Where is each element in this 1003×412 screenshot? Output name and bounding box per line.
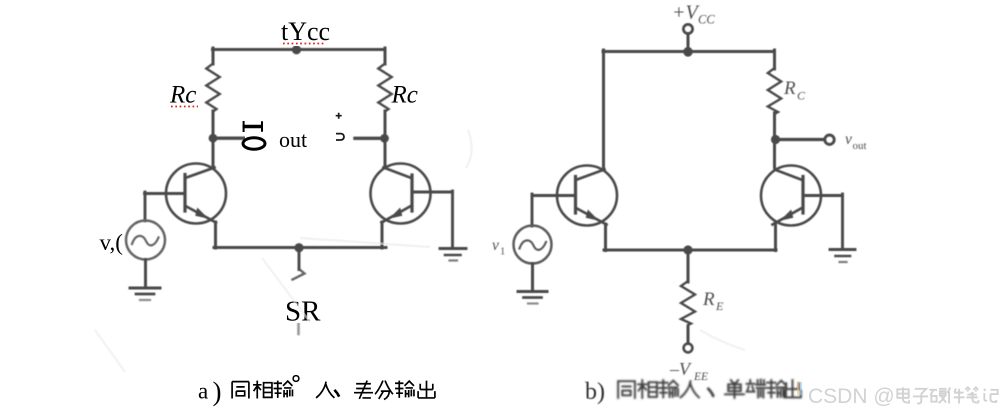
terminal vout circle <box>825 135 834 144</box>
resistor Rc left (circuit a) <box>206 64 219 112</box>
wire Q3 emitter down <box>604 224 607 251</box>
resistor Rc right (circuit a) <box>378 64 391 112</box>
transistor Q1 base bar <box>183 175 186 212</box>
source V1 circle (circuit a) <box>126 221 165 260</box>
label rotated u (overlaid vo) <box>336 134 344 140</box>
wire emitter bottom rail (circuit a) <box>214 246 386 249</box>
svg-text:v: v <box>845 131 852 148</box>
resistor RE <box>681 281 695 325</box>
transistor Q4 emitter arrow <box>780 210 793 221</box>
wire right branch top (rail to resistor, circuit a) <box>384 48 387 64</box>
wire source V1 to ground <box>144 260 147 289</box>
transistor Q3 collector line <box>577 170 605 180</box>
transistor Q4 circle <box>761 166 821 226</box>
transistor Q1 collector line <box>187 168 215 178</box>
resistor RC (circuit b) <box>768 68 781 114</box>
caption a: CJK 同相输入、差分输出 (crisp) <box>232 381 435 400</box>
transistor Q1 circle <box>166 164 226 224</box>
faint scan smudges <box>95 130 745 372</box>
svg-text:CC: CC <box>698 13 715 27</box>
label +Vcc (circuit b) <box>672 2 715 27</box>
svg-text:b): b) <box>585 379 605 405</box>
ground (Q2 base, circuit a) <box>440 247 466 250</box>
wire output node to terminal <box>776 138 825 141</box>
caption a: degree mark <box>293 376 299 382</box>
white patch behind SR <box>280 283 324 323</box>
transistor Q1 emitter arrow <box>195 208 208 219</box>
current source fragment tick below SR <box>297 324 300 335</box>
caption b: CJK 同相输入、单端输出 (blurry) <box>618 380 801 398</box>
transistor Q4 collector line <box>775 170 802 180</box>
svg-text:+V: +V <box>672 2 700 24</box>
transistor Q4 base lead <box>803 194 843 197</box>
node collector right (out+) <box>380 134 389 143</box>
node tail junction (circuit b) <box>683 245 692 254</box>
node output (circuit b) <box>771 135 780 144</box>
svg-text:1: 1 <box>500 247 505 258</box>
svg-text:out: out <box>279 127 307 152</box>
label -VEE <box>669 359 708 383</box>
node Vcc junction dot (circuit a) <box>292 45 301 54</box>
transistor Q2 emitter arrow <box>389 208 402 219</box>
svg-text:Rc: Rc <box>391 82 418 109</box>
wire RE to VEE terminal <box>687 327 690 344</box>
svg-text:tYcc: tYcc <box>281 17 330 46</box>
wire Q4 emitter down <box>774 224 777 251</box>
transistor Q2 base lead <box>412 191 453 194</box>
white patch behind tYcc <box>276 14 332 46</box>
svg-text:v,(: v,( <box>100 230 123 255</box>
terminal +Vcc circle <box>683 24 692 33</box>
transistor Q3 base bar <box>574 177 577 214</box>
wire Q1 emitter down <box>214 222 217 248</box>
white patch behind rotated 10 <box>245 115 270 155</box>
wire Q3 base corner down to source <box>531 194 534 226</box>
wire out stub right <box>355 137 385 140</box>
spellcheck underline under Rc <box>171 106 198 108</box>
transistor Q3 emitter line <box>577 209 607 225</box>
svg-text:Rc: Rc <box>169 82 196 109</box>
wire Vcc top rail (circuit a) <box>213 48 386 51</box>
spellcheck underline under tYcc <box>283 43 324 45</box>
transistor Q4 emitter line <box>773 209 802 225</box>
node collector left (out-) <box>209 134 218 143</box>
wire Vcc terminal to rail <box>687 34 690 53</box>
svg-text:): ) <box>213 377 222 407</box>
wire out stub left <box>213 136 251 139</box>
wire Vcc top rail (circuit b) <box>603 50 775 53</box>
transistor Q1 base lead <box>145 192 186 195</box>
terminal -VEE circle <box>684 344 693 353</box>
svg-text:CSDN @: CSDN @ <box>808 385 895 408</box>
transistor Q4 base bar <box>801 177 804 214</box>
ground (Q4 base, circuit b) <box>830 248 855 251</box>
svg-text:R: R <box>783 78 796 99</box>
transistor Q1 emitter line <box>187 207 217 223</box>
wire left branch top (rail to resistor) <box>212 48 215 64</box>
svg-text:C: C <box>797 89 806 103</box>
current source fragment (faded zigzag above SR) <box>293 269 305 280</box>
transistor Q3 emitter arrow <box>586 210 599 221</box>
label v1 (circuit b) <box>492 237 505 258</box>
svg-text:a: a <box>198 379 208 404</box>
source V1 sine wave <box>132 236 159 245</box>
svg-text:R: R <box>702 289 715 310</box>
transistor Q2 circle <box>371 164 431 224</box>
svg-text:v: v <box>492 237 499 254</box>
svg-text:EE: EE <box>693 371 708 383</box>
source V1 sine wave (circuit b) <box>520 240 547 249</box>
watermark artifacts <box>797 382 799 395</box>
transistor Q3 base lead <box>532 194 576 197</box>
wire emitter bottom rail (circuit b) <box>604 249 776 252</box>
wire Q1 base corner down to source <box>144 192 147 221</box>
node Vcc junction dot (circuit b) <box>683 47 693 57</box>
wire resistor to collector node right <box>384 111 387 168</box>
ground (below V1, circuit a) <box>130 287 160 290</box>
wire right branch top (rail to RC) <box>773 50 776 69</box>
wire tail stub down <box>298 249 301 270</box>
wire left branch down to Q3 collector <box>602 50 605 169</box>
label vout <box>845 131 867 152</box>
wire source to ground (circuit b) <box>531 264 534 292</box>
wire tail to RE <box>687 250 690 282</box>
wire resistor to collector node <box>212 111 215 168</box>
label rotated "1" (overlaid vo1) <box>243 125 264 128</box>
wire Q4 base to ground <box>841 194 844 249</box>
transistor Q2 emitter line <box>382 207 411 223</box>
svg-text:–V: –V <box>669 359 692 379</box>
transistor Q3 circle <box>557 166 617 226</box>
label rotated "0" (overlaid vo1) <box>243 138 265 150</box>
transistor Q2 collector line <box>384 168 411 178</box>
wire Q2 base to ground <box>451 191 454 248</box>
transistor Q2 base bar <box>410 175 413 211</box>
wire RC to output node <box>773 113 776 167</box>
node tail junction (circuit a) <box>294 243 303 252</box>
svg-text:E: E <box>715 299 724 313</box>
svg-text:out: out <box>853 140 867 152</box>
source V1 circle (circuit b) <box>514 226 552 264</box>
label RC <box>783 78 806 103</box>
caption b: b) <box>585 379 605 405</box>
ground (below V1, circuit b) <box>518 290 547 293</box>
wire Q2 emitter down <box>381 222 384 248</box>
label RE <box>702 289 724 313</box>
watermark CJK 电子硬件笔记 <box>897 387 997 403</box>
label + (overlaid polarity) <box>336 113 342 119</box>
